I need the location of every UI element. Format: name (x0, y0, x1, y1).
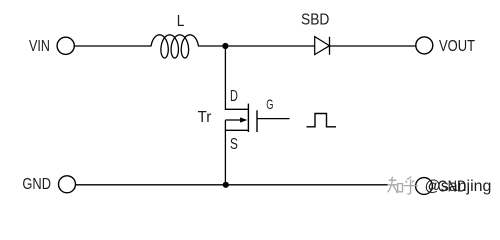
watermark zhihu logo glyphs (388, 177, 418, 194)
wire VIN to inductor (74, 45, 151, 47)
svg-text:S: S (230, 136, 238, 153)
label L (177, 13, 185, 30)
pin label D (230, 88, 238, 105)
svg-text:VOUT: VOUT (439, 38, 475, 55)
node B ground junction dot (223, 182, 229, 188)
svg-text:VIN: VIN (29, 38, 50, 55)
watermark handle text (425, 178, 492, 195)
label GND right (438, 178, 467, 195)
transistor Tr (MOSFET) (225, 104, 257, 132)
wire ground rail right (226, 184, 388, 186)
wire SBD to VOUT (330, 45, 416, 47)
svg-text:GND: GND (22, 176, 51, 193)
pin label S (230, 136, 238, 153)
svg-text:D: D (230, 88, 238, 105)
terminal GND right (416, 178, 433, 195)
wire node A to drain (225, 46, 248, 109)
inductor L (151, 35, 199, 58)
wire source to ground rail (224, 130, 226, 185)
label VIN (29, 38, 50, 55)
wire gate lead (257, 118, 290, 120)
svg-text:GND: GND (438, 178, 467, 195)
label SBD (301, 12, 329, 29)
gate drive pulse waveform (307, 114, 337, 127)
label GND left (22, 176, 51, 193)
svg-text:SBD: SBD (301, 12, 329, 29)
diode SBD (315, 37, 330, 55)
terminal VOUT (416, 37, 433, 54)
label Tr (198, 109, 212, 126)
node A junction dot (222, 43, 228, 49)
terminal VIN (57, 37, 74, 54)
pin label G (266, 96, 273, 112)
label VOUT (439, 38, 475, 55)
wire ground rail left (76, 184, 226, 186)
svg-text:G: G (266, 96, 273, 112)
terminal GND left (59, 176, 76, 193)
svg-text:L: L (177, 13, 185, 30)
wire inductor to SBD anode (through node A) (198, 45, 314, 47)
svg-text:Tr: Tr (198, 109, 212, 126)
